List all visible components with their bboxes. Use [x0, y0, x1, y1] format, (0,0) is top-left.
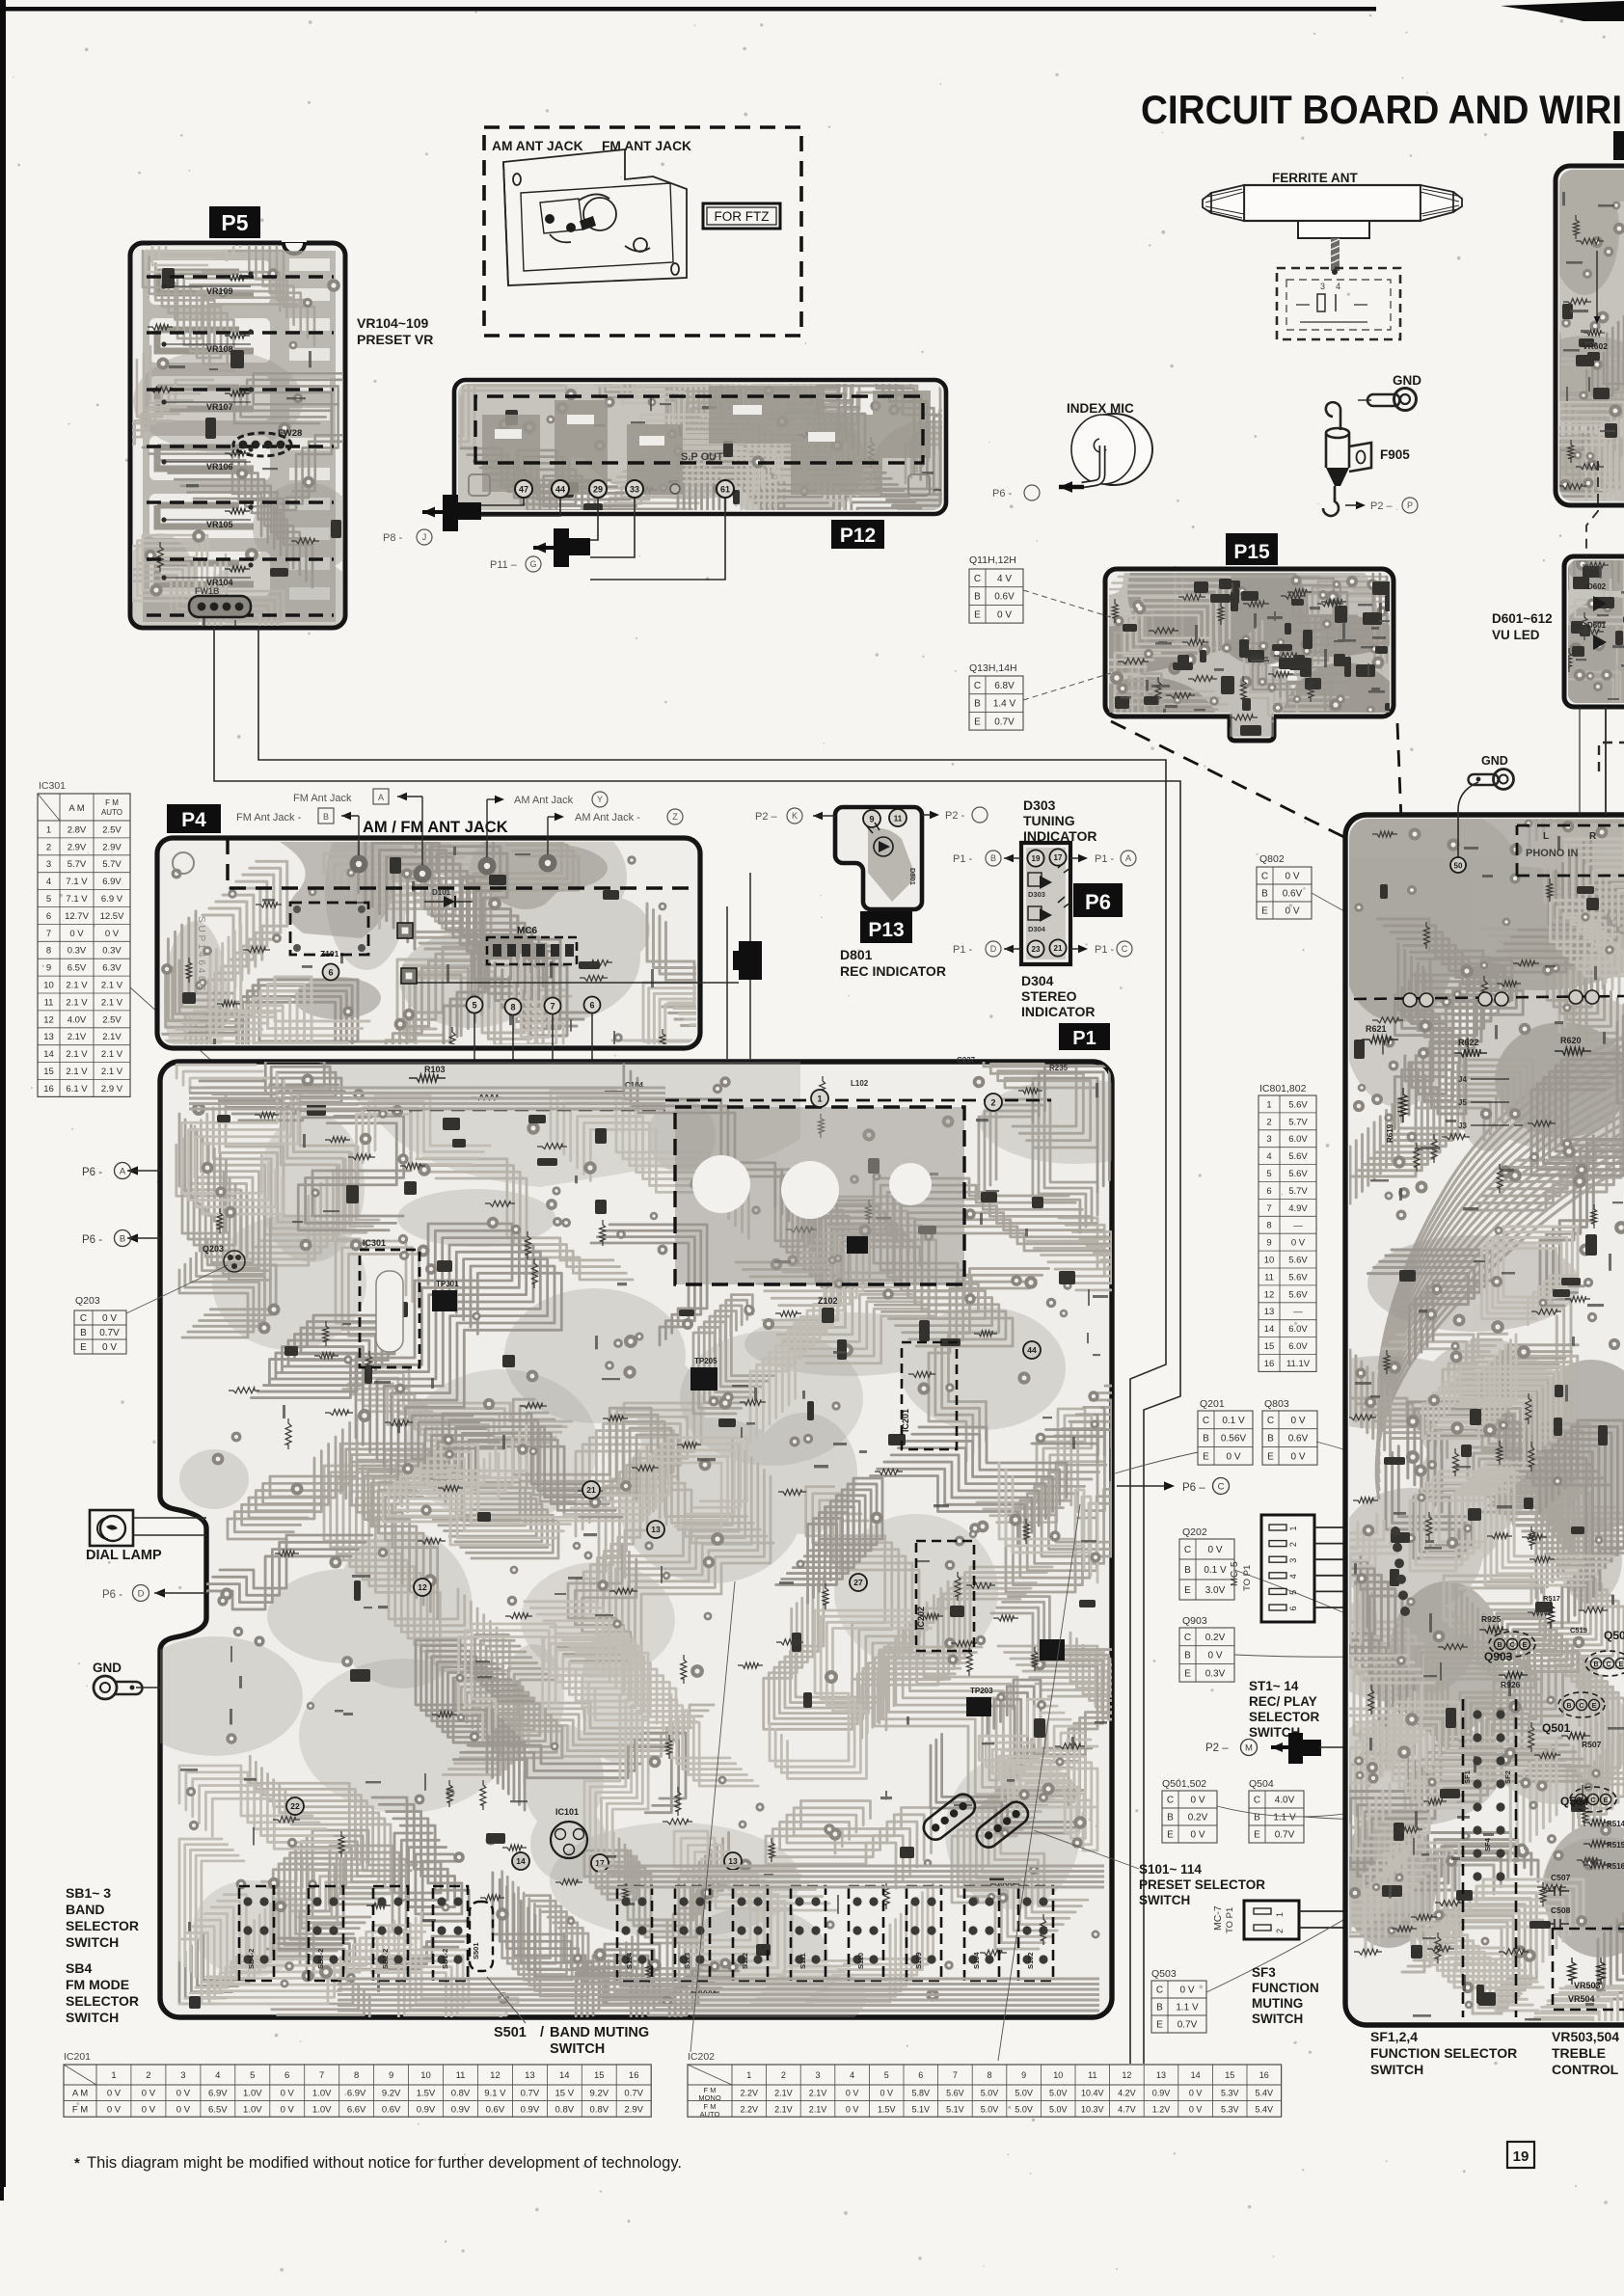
- svg-text:INDEX MIC: INDEX MIC: [1067, 401, 1134, 416]
- svg-text:0 V: 0 V: [1179, 1985, 1194, 1996]
- svg-text:Q201: Q201: [1200, 1398, 1225, 1410]
- svg-text:2.1 V: 2.1 V: [101, 1067, 123, 1077]
- svg-text:5.3V: 5.3V: [1221, 2089, 1239, 2098]
- svg-text:S104: S104: [972, 1952, 981, 1969]
- svg-text:TP203: TP203: [970, 1687, 993, 1695]
- svg-text:0.2V: 0.2V: [1188, 1813, 1208, 1823]
- svg-text:S501: S501: [472, 1942, 480, 1959]
- fuse F905: [1323, 402, 1371, 516]
- svg-text:6.3V: 6.3V: [102, 963, 122, 974]
- svg-text:R515: R515: [1607, 1841, 1624, 1850]
- svg-text:2: 2: [46, 842, 51, 852]
- svg-text:6: 6: [589, 1000, 594, 1010]
- label P15: [1226, 533, 1278, 565]
- svg-text:50: 50: [1454, 861, 1463, 870]
- svg-text:4.0V: 4.0V: [68, 1014, 87, 1025]
- svg-text:2.9 V: 2.9 V: [101, 1084, 123, 1094]
- table IC301: [38, 780, 130, 1096]
- svg-text:8: 8: [1266, 1221, 1271, 1231]
- svg-text:6.8V: 6.8V: [994, 681, 1015, 691]
- svg-text:C237: C237: [957, 1056, 976, 1065]
- svg-text:15: 15: [1264, 1341, 1275, 1352]
- svg-text:0.7V: 0.7V: [624, 2089, 643, 2099]
- svg-text:B: B: [1593, 1661, 1598, 1668]
- svg-text:P2 –: P2 –: [1370, 500, 1394, 512]
- svg-text:E: E: [80, 1342, 87, 1353]
- svg-text:5.6V: 5.6V: [1288, 1169, 1308, 1179]
- label S.P OUT: [681, 451, 723, 463]
- connector plug P8-J: [422, 495, 481, 531]
- svg-text:1: 1: [111, 2070, 116, 2081]
- board P2 right (amplifier): [1345, 815, 1624, 2025]
- long leader across P1 bottom right: [998, 1504, 1080, 2061]
- svg-text:K: K: [792, 811, 798, 821]
- svg-text:C: C: [1606, 1661, 1610, 1668]
- ant jack bracket drawing: [503, 149, 687, 285]
- svg-text:12: 12: [1122, 2070, 1131, 2080]
- svg-text:5.1V: 5.1V: [912, 2104, 931, 2114]
- svg-text:D303: D303: [1028, 890, 1045, 899]
- svg-text:0 V: 0 V: [1190, 1796, 1204, 1806]
- svg-text:5.7V: 5.7V: [68, 859, 87, 870]
- svg-text:7.1 V: 7.1 V: [66, 877, 88, 887]
- svg-text:IC202: IC202: [916, 1607, 926, 1630]
- svg-text:IC202: IC202: [688, 2051, 715, 2063]
- callout P6-B: [82, 1230, 160, 1247]
- svg-text:0.9V: 0.9V: [521, 2104, 540, 2115]
- svg-text:1.5V: 1.5V: [878, 2104, 896, 2114]
- IC201 dashed box: [901, 1342, 957, 1449]
- svg-text:0 V: 0 V: [69, 929, 84, 939]
- callout FM Ant Jack B: [236, 808, 359, 855]
- svg-text:R103: R103: [424, 1065, 446, 1074]
- svg-text:FOR FTZ: FOR FTZ: [715, 209, 770, 224]
- table IC801,802: [1259, 1083, 1316, 1371]
- svg-text:0 V: 0 V: [1285, 872, 1299, 882]
- P4 diode R101: [424, 888, 473, 907]
- svg-text:R926: R926: [1501, 1680, 1521, 1689]
- svg-text:E: E: [1156, 2020, 1163, 2031]
- svg-text:6.9V: 6.9V: [102, 877, 122, 887]
- svg-text:C: C: [1267, 1416, 1274, 1426]
- svg-text:0.1 V: 0.1 V: [1204, 1565, 1227, 1576]
- svg-text:0 V: 0 V: [1285, 906, 1299, 917]
- svg-text:6: 6: [284, 2070, 289, 2081]
- svg-text:S110: S110: [856, 1953, 865, 1969]
- svg-text:0.7V: 0.7V: [1275, 1830, 1295, 1841]
- svg-text:9: 9: [869, 814, 874, 824]
- callout P6-C: [1117, 1478, 1230, 1495]
- svg-text:14: 14: [516, 1856, 526, 1866]
- svg-text:5.7V: 5.7V: [102, 859, 122, 870]
- svg-text:MUTING: MUTING: [1252, 1996, 1303, 2011]
- svg-text:IC301: IC301: [363, 1238, 386, 1248]
- svg-text:SELECTOR: SELECTOR: [1249, 1710, 1320, 1724]
- svg-text:P8 -: P8 -: [383, 532, 403, 544]
- svg-text:19: 19: [1032, 854, 1041, 863]
- board P4: [157, 838, 700, 1048]
- gnd lug right: [1450, 754, 1514, 873]
- svg-text:B: B: [1156, 2003, 1163, 2013]
- svg-text:0.6V: 0.6V: [994, 592, 1015, 603]
- svg-text:12.7V: 12.7V: [65, 911, 89, 922]
- svg-text:L102: L102: [851, 1079, 869, 1088]
- svg-text:2.1V: 2.1V: [68, 1032, 87, 1042]
- svg-text:5.6V: 5.6V: [946, 2089, 964, 2098]
- svg-text:S109: S109: [914, 1952, 923, 1969]
- MC5 wire pads column: [1391, 1526, 1410, 1616]
- svg-text:0 V: 0 V: [142, 2089, 156, 2099]
- svg-text:0.3V: 0.3V: [68, 946, 87, 957]
- svg-text:4.0V: 4.0V: [1275, 1796, 1295, 1806]
- svg-text:12: 12: [43, 1014, 54, 1025]
- P1 tuning-cap dashed shield box: [675, 1107, 964, 1306]
- label P11-(G): [490, 556, 541, 572]
- svg-text:D801: D801: [908, 868, 917, 885]
- svg-text:P4: P4: [181, 809, 206, 831]
- svg-text:1: 1: [46, 824, 51, 835]
- svg-text:14: 14: [1191, 2070, 1201, 2080]
- svg-text:SWITCH: SWITCH: [66, 1934, 119, 1950]
- board P15: [1105, 569, 1394, 741]
- label P8-(J): [383, 529, 432, 545]
- svg-text:S112: S112: [741, 1953, 749, 1969]
- svg-text:5.0V: 5.0V: [981, 2104, 999, 2114]
- svg-text:1.0V: 1.0V: [243, 2104, 262, 2115]
- svg-text:P1 -: P1 -: [1095, 853, 1115, 865]
- svg-text:Q504: Q504: [1560, 1795, 1589, 1808]
- leader Q13H to P15: [1023, 673, 1111, 700]
- svg-text:6.5V: 6.5V: [208, 2104, 228, 2115]
- svg-text:0 V: 0 V: [1290, 1416, 1305, 1426]
- table Q201: [1198, 1398, 1253, 1465]
- svg-text:R621: R621: [1366, 1024, 1387, 1034]
- svg-text:SF4: SF4: [1483, 1837, 1492, 1851]
- svg-text:B: B: [323, 812, 329, 822]
- svg-text:0.6V: 0.6V: [486, 2104, 505, 2115]
- switch outlines bottom row: [239, 1886, 1053, 1981]
- page edge strip left: [0, 0, 6, 2201]
- svg-text:11: 11: [1088, 2070, 1096, 2080]
- long leader to IC202 label: [690, 1581, 735, 2052]
- svg-text:SB1-2: SB1-2: [441, 1949, 449, 1969]
- svg-text:AM Ant Jack -: AM Ant Jack -: [575, 812, 640, 824]
- svg-text:0 V: 0 V: [107, 2104, 122, 2115]
- svg-text:P12: P12: [840, 525, 876, 547]
- svg-text:0.8V: 0.8V: [555, 2104, 575, 2115]
- svg-text:14: 14: [559, 2070, 570, 2081]
- svg-text:1.1 V: 1.1 V: [1273, 1813, 1296, 1823]
- svg-text:C: C: [1122, 944, 1128, 954]
- svg-text:S501: S501: [494, 2025, 527, 2040]
- label SF1,2,4 FUNCTION SELECTOR SWITCH: [1370, 2029, 1517, 2077]
- P5 dashed rows: [147, 277, 334, 615]
- svg-text:*: *: [74, 2155, 80, 2172]
- leader Q503: [1206, 1844, 1463, 1992]
- leader Q903: [1234, 1651, 1485, 1657]
- index mic: [992, 401, 1152, 500]
- svg-text:SF2: SF2: [1503, 1770, 1512, 1784]
- callout P6-D: [102, 1585, 209, 1602]
- svg-text:P: P: [1407, 500, 1413, 510]
- label D601~612 VU LED: [1492, 611, 1553, 642]
- svg-text:15 V: 15 V: [555, 2089, 575, 2099]
- svg-text:13: 13: [651, 1525, 661, 1534]
- table Q203: [74, 1295, 126, 1354]
- FOR FTZ box: [703, 203, 780, 229]
- P5 VR resistors and labels: [161, 271, 253, 587]
- svg-text:Q903: Q903: [1182, 1615, 1207, 1627]
- assorted component labels P1 top: [625, 1056, 1069, 1090]
- svg-text:5.6V: 5.6V: [1288, 1272, 1308, 1283]
- page number 19: [1507, 2142, 1534, 2168]
- MC-5 wires to right board: [1314, 1527, 1403, 1611]
- svg-text:16: 16: [1264, 1359, 1275, 1369]
- svg-text:D304: D304: [1021, 973, 1054, 988]
- svg-text:D101: D101: [432, 888, 451, 897]
- leader Q504 to right board: [1304, 1801, 1562, 1820]
- svg-text:A M: A M: [72, 2089, 88, 2099]
- svg-text:GND: GND: [1393, 373, 1421, 388]
- svg-text:E: E: [974, 716, 981, 727]
- svg-text:VR503: VR503: [1574, 1981, 1601, 1990]
- svg-text:5.8V: 5.8V: [912, 2089, 931, 2098]
- P4 screw hole: [173, 852, 194, 874]
- svg-text:1.2V: 1.2V: [1152, 2104, 1171, 2114]
- svg-text:3: 3: [815, 2070, 820, 2080]
- svg-text:1: 1: [817, 1094, 822, 1103]
- svg-text:8: 8: [510, 1002, 515, 1012]
- svg-text:0.8V: 0.8V: [590, 2104, 609, 2115]
- labels SB1~3 SB4: [66, 1885, 139, 1950]
- svg-text:SB4: SB4: [66, 1960, 92, 1976]
- svg-text:/: /: [540, 2025, 544, 2040]
- svg-text:1: 1: [1266, 1099, 1271, 1110]
- svg-text:6: 6: [1288, 1606, 1298, 1610]
- board P5: [130, 235, 345, 628]
- svg-text:B: B: [1566, 1703, 1571, 1710]
- svg-text:1.4 V: 1.4 V: [993, 699, 1016, 710]
- svg-text:TO P1: TO P1: [1242, 1565, 1253, 1591]
- svg-text:Q202: Q202: [1182, 1526, 1207, 1538]
- svg-text:3: 3: [46, 859, 51, 870]
- P1 top dashed line with pads 1,2: [665, 1090, 1051, 1111]
- svg-text:0 V: 0 V: [142, 2104, 156, 2115]
- svg-text:0.9V: 0.9V: [417, 2104, 436, 2115]
- VR503 dashed box: [1553, 1929, 1624, 2010]
- connector plug P2-M: [1271, 1733, 1350, 1764]
- svg-text:P5: P5: [221, 210, 248, 235]
- svg-text:2.1 V: 2.1 V: [101, 980, 123, 990]
- svg-text:SWITCH: SWITCH: [1370, 2062, 1423, 2077]
- connector FW28: [233, 428, 302, 456]
- svg-text:P2 –: P2 –: [755, 811, 778, 823]
- svg-text:L: L: [1543, 831, 1549, 842]
- svg-text:F905: F905: [1380, 447, 1410, 462]
- svg-text:S114: S114: [625, 1952, 634, 1969]
- svg-text:ST1~ 14: ST1~ 14: [1249, 1679, 1299, 1693]
- svg-text:GND: GND: [93, 1661, 122, 1675]
- LED D304: [1028, 897, 1070, 933]
- svg-text:B: B: [1167, 1813, 1174, 1823]
- svg-text:BAND MUTING: BAND MUTING: [550, 2025, 649, 2040]
- svg-text:REC INDICATOR: REC INDICATOR: [840, 963, 946, 979]
- svg-text:A: A: [378, 793, 384, 802]
- svg-text:INDICATOR: INDICATOR: [1021, 1004, 1095, 1019]
- svg-text:5.6V: 5.6V: [1288, 1256, 1308, 1266]
- ferrite antenna: [1203, 171, 1462, 271]
- svg-text:C: C: [1509, 1642, 1514, 1649]
- svg-text:SF1: SF1: [1463, 1770, 1472, 1784]
- svg-text:P2 -: P2 -: [945, 810, 965, 822]
- svg-text:2: 2: [146, 2070, 150, 2081]
- svg-text:0 V: 0 V: [1190, 1830, 1204, 1841]
- svg-text:5.7V: 5.7V: [1288, 1186, 1308, 1197]
- svg-text:2: 2: [1288, 1542, 1298, 1547]
- svg-text:E: E: [1619, 1661, 1624, 1668]
- svg-text:F M: F M: [105, 798, 119, 807]
- svg-text:5: 5: [46, 894, 51, 905]
- svg-text:4: 4: [215, 2070, 220, 2081]
- svg-text:10: 10: [1264, 1256, 1275, 1266]
- svg-text:33: 33: [630, 485, 639, 495]
- label D304 STEREO INDICATOR: [1021, 973, 1095, 1019]
- svg-text:2.5V: 2.5V: [102, 824, 122, 835]
- dashed leader P15 right corner down: [1397, 723, 1405, 918]
- svg-text:E: E: [1523, 1642, 1528, 1649]
- leader Q201 into P1: [1115, 1452, 1198, 1473]
- svg-text:6.9V: 6.9V: [208, 2089, 228, 2099]
- svg-text:C: C: [1579, 1703, 1583, 1710]
- svg-text:R235: R235: [1049, 1064, 1069, 1072]
- svg-text:B: B: [1184, 1651, 1191, 1661]
- svg-text:5.7V: 5.7V: [1288, 1117, 1308, 1127]
- wires P12 pads to plugs: [480, 498, 725, 580]
- IC301 dashed box in P1: [360, 1238, 420, 1367]
- svg-text:IC201: IC201: [901, 1409, 910, 1432]
- label S101~114 PRESET SELECTOR SWITCH: [1139, 1862, 1265, 1907]
- svg-text:E: E: [1604, 1797, 1609, 1804]
- svg-text:C508: C508: [1551, 1905, 1571, 1915]
- svg-text:1.1 V: 1.1 V: [1176, 2003, 1199, 2013]
- svg-text:0 V: 0 V: [1207, 1545, 1222, 1555]
- svg-text:2.1 V: 2.1 V: [66, 980, 88, 990]
- svg-text:STEREO: STEREO: [1021, 988, 1077, 1004]
- label P2-(P): [1345, 498, 1418, 513]
- board VU LED lower: [1564, 556, 1624, 707]
- svg-text:VR107: VR107: [206, 402, 233, 412]
- svg-text:19: 19: [1513, 2148, 1529, 2165]
- svg-text:P6 -: P6 -: [82, 1167, 102, 1178]
- svg-text:P6 -: P6 -: [102, 1589, 122, 1601]
- Z101 dashed box: [290, 903, 368, 959]
- svg-text:0 V: 0 V: [880, 2089, 893, 2098]
- svg-text:1.0V: 1.0V: [312, 2089, 332, 2099]
- dial lamp: [90, 1510, 206, 1546]
- SF pads: [1463, 1710, 1512, 1880]
- svg-text:15: 15: [1225, 2070, 1234, 2080]
- svg-text:P1 -: P1 -: [953, 853, 973, 865]
- svg-text:SELECTOR: SELECTOR: [66, 1918, 139, 1933]
- svg-text:0 V: 0 V: [105, 929, 120, 939]
- SF switch dashed lines: [1463, 1699, 1516, 2017]
- svg-text:R619: R619: [1386, 1123, 1394, 1143]
- svg-text:0.2V: 0.2V: [1205, 1633, 1226, 1643]
- svg-text:B: B: [1203, 1434, 1209, 1445]
- svg-text:11.1V: 11.1V: [1286, 1359, 1311, 1369]
- svg-text:6.9 V: 6.9 V: [101, 894, 123, 905]
- svg-text:16: 16: [629, 2070, 639, 2081]
- svg-text:2.1 V: 2.1 V: [66, 1067, 88, 1077]
- svg-text:3: 3: [1320, 282, 1325, 291]
- svg-text:13: 13: [525, 2070, 535, 2081]
- wire from VU board down to right board: [1580, 707, 1606, 815]
- svg-text:15: 15: [43, 1067, 54, 1077]
- svg-text:Q203: Q203: [203, 1244, 224, 1254]
- svg-text:VR602: VR602: [1583, 341, 1608, 351]
- svg-text:44: 44: [1027, 1345, 1037, 1355]
- P13 arrows: [755, 808, 835, 824]
- svg-text:This diagram might be modified: This diagram might be modified without n…: [87, 2154, 682, 2172]
- table Q501,502: [1162, 1778, 1217, 1843]
- svg-text:SB3-2: SB3-2: [316, 1949, 325, 1969]
- P13 pads 9 11: [863, 809, 907, 827]
- wires P4 to P1: [417, 873, 750, 1102]
- svg-text:9: 9: [46, 963, 51, 974]
- svg-text:11: 11: [456, 2070, 466, 2081]
- svg-text:Q13H,14H: Q13H,14H: [969, 662, 1017, 674]
- callout AM Ant Jack Z: [548, 809, 683, 854]
- svg-text:P13: P13: [868, 919, 904, 941]
- LED D801: [867, 823, 917, 885]
- svg-text:5: 5: [472, 1000, 476, 1010]
- svg-text:4: 4: [46, 877, 51, 887]
- table IC202: [688, 2051, 1282, 2119]
- svg-text:C: C: [80, 1313, 87, 1324]
- label DIAL LAMP: [86, 1548, 162, 1563]
- svg-text:S113: S113: [683, 1953, 691, 1969]
- svg-text:A: A: [1125, 853, 1131, 863]
- svg-text:27: 27: [853, 1578, 863, 1587]
- svg-text:6: 6: [46, 911, 51, 922]
- P12 numbered pads 47 44 29 33 61: [515, 480, 734, 498]
- svg-text:FERRITE ANT: FERRITE ANT: [1272, 171, 1358, 185]
- svg-text:AM / FM ANT JACK: AM / FM ANT JACK: [363, 819, 508, 836]
- svg-text:2.1 V: 2.1 V: [101, 1049, 123, 1060]
- svg-text:DIAL LAMP: DIAL LAMP: [86, 1548, 162, 1563]
- right board dashed pad row: [1354, 990, 1624, 1007]
- svg-text:0.7V: 0.7V: [521, 2089, 540, 2099]
- svg-text:0 V: 0 V: [1207, 1651, 1222, 1661]
- svg-text:6: 6: [1266, 1186, 1271, 1197]
- svg-text:11: 11: [44, 997, 54, 1008]
- svg-text:E: E: [1184, 1585, 1191, 1596]
- label VR503,504 TREBLE CONTROL: [1552, 2029, 1619, 2077]
- connector MC-5: [1229, 1515, 1314, 1622]
- svg-text:R925: R925: [1481, 1614, 1502, 1624]
- table Q503: [1151, 1968, 1206, 2033]
- svg-text:11: 11: [1264, 1272, 1274, 1283]
- table Q11H,12H: [969, 554, 1023, 623]
- svg-text:6.1 V: 6.1 V: [66, 1084, 88, 1094]
- P1 bottom bus traces: [189, 1088, 1104, 2011]
- svg-text:M: M: [1245, 1742, 1253, 1753]
- svg-text:SWITCH: SWITCH: [66, 2010, 119, 2025]
- svg-text:0 V: 0 V: [281, 2104, 295, 2115]
- svg-text:6.6V: 6.6V: [347, 2104, 366, 2115]
- svg-text:P6 -: P6 -: [82, 1234, 102, 1246]
- svg-text:AUTO: AUTO: [700, 2110, 720, 2119]
